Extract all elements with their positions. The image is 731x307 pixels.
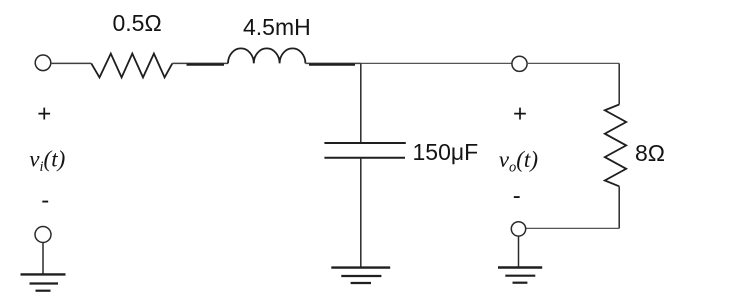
ground input bar3 bbox=[36, 290, 51, 292]
wire capacitor to ground bbox=[360, 158, 362, 268]
terminal T4 input bottom bbox=[35, 227, 51, 243]
ground output bar3 bbox=[513, 282, 528, 284]
node capacitor junction wire down bbox=[360, 63, 362, 142]
ground output bar1 bbox=[498, 266, 542, 268]
wire right vertical bottom bbox=[618, 186, 620, 228]
svg-text:vo(t): vo(t) bbox=[499, 147, 538, 176]
svg-text:-: - bbox=[41, 187, 49, 214]
wire node to output terminal bbox=[361, 62, 512, 64]
ground capacitor bar3 bbox=[351, 282, 371, 284]
wire input to resistor bbox=[51, 62, 92, 64]
svg-text:0.5Ω: 0.5Ω bbox=[113, 10, 162, 36]
terminal T1 input top bbox=[35, 55, 51, 71]
ground input bar1 bbox=[21, 273, 66, 275]
svg-text:150μF: 150μF bbox=[413, 139, 479, 165]
svg-text:+: + bbox=[513, 101, 527, 128]
resistor R1 bbox=[91, 54, 172, 78]
wire bottom right horizontal bbox=[526, 227, 620, 229]
terminal T3 output bottom bbox=[511, 222, 525, 236]
wire terminal to ground right bbox=[518, 236, 520, 267]
wire terminal to ground left bbox=[42, 243, 44, 275]
svg-text:4.5mH: 4.5mH bbox=[243, 14, 311, 40]
wire overlap thick segment 2 bbox=[309, 63, 355, 65]
svg-text:-: - bbox=[513, 183, 521, 210]
wire terminal to right corner bbox=[527, 62, 619, 64]
capacitor C1 bottom plate bbox=[324, 157, 405, 159]
wire resistor to inductor bbox=[172, 62, 228, 64]
svg-text:8Ω: 8Ω bbox=[635, 140, 665, 166]
ground output bar2 bbox=[505, 275, 535, 277]
wire overlap thick segment bbox=[187, 63, 225, 65]
ground input bar2 bbox=[30, 282, 59, 284]
svg-text:+: + bbox=[37, 101, 51, 128]
svg-text:vi(t): vi(t) bbox=[29, 146, 65, 175]
resistor R2 vertical bbox=[605, 105, 626, 187]
wire inductor to node bbox=[305, 62, 360, 64]
wire right vertical top bbox=[618, 63, 620, 104]
ground capacitor bar1 bbox=[331, 266, 390, 268]
terminal T2 output top bbox=[512, 56, 527, 71]
inductor L1 bbox=[228, 48, 305, 63]
ground capacitor bar2 bbox=[341, 275, 381, 277]
capacitor C1 top plate bbox=[324, 142, 405, 144]
